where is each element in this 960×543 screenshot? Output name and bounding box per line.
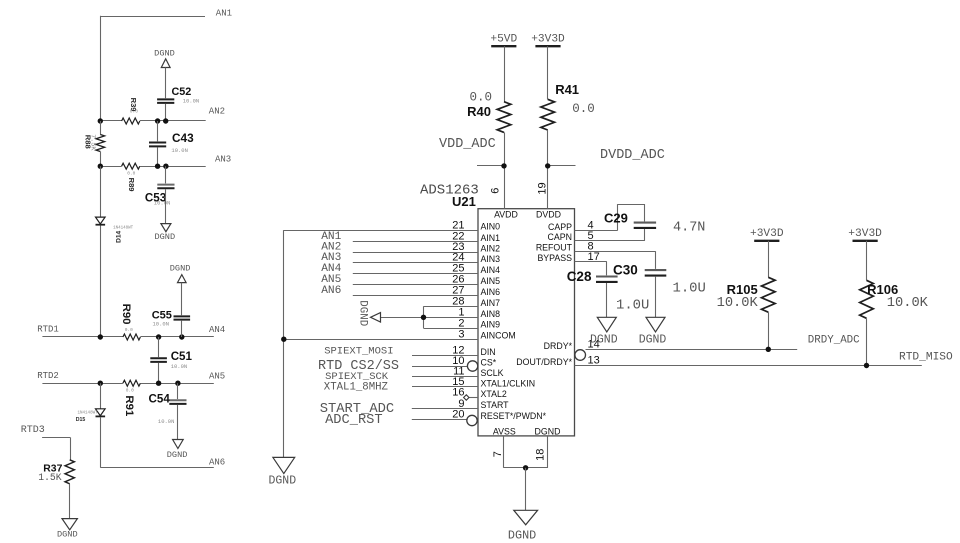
svg-text:10.0N: 10.0N	[153, 320, 170, 327]
svg-text:DGND: DGND	[167, 450, 188, 460]
svg-text:VDD_ADC: VDD_ADC	[439, 137, 496, 152]
capacitor C28	[567, 269, 650, 313]
svg-text:DOUT/DRDY*: DOUT/DRDY*	[516, 357, 572, 367]
capacitor C43	[149, 131, 194, 154]
wire R105 to DRDY	[766, 312, 771, 352]
svg-text:DGND: DGND	[508, 529, 536, 543]
wire C51 to RTD2	[158, 363, 160, 383]
pin 1 AIN8	[424, 307, 501, 319]
power +5VD	[490, 34, 517, 47]
pin 14 DRDY* labels	[544, 339, 600, 351]
wire DGND to C55	[181, 283, 183, 316]
pin 20 RESET*/PWDN*	[412, 409, 547, 426]
resistor R90	[120, 304, 140, 340]
junction RTD1-rail	[98, 334, 103, 339]
svg-text:REFOUT: REFOUT	[536, 243, 573, 253]
svg-text:C51: C51	[171, 350, 193, 363]
svg-text:AIN1: AIN1	[481, 233, 501, 243]
wire RTD2 left	[42, 383, 123, 385]
pin name AVDD	[494, 210, 518, 220]
pin 6 number	[490, 188, 502, 194]
resistor R105	[717, 277, 775, 312]
junction AN2-rail	[98, 118, 103, 123]
wire RTD_MISO	[575, 365, 922, 367]
svg-text:C43: C43	[172, 131, 194, 145]
svg-text:R89: R89	[127, 178, 136, 192]
pin 18 wire	[534, 436, 547, 468]
node VDD_ADC	[439, 137, 507, 169]
pin 25 AIN4	[353, 263, 500, 275]
svg-text:DGND: DGND	[268, 475, 296, 488]
svg-text:AVDD: AVDD	[494, 210, 518, 220]
pin 27 AIN6	[353, 285, 500, 297]
svg-text:10.0K: 10.0K	[717, 296, 759, 311]
svg-text:18: 18	[534, 449, 546, 461]
wire RTD2 to D15	[100, 383, 102, 409]
svg-text:0.0: 0.0	[126, 388, 134, 394]
svg-text:DGND: DGND	[154, 232, 175, 242]
svg-text:RTD3: RTD3	[21, 425, 45, 436]
wire R40 to pin6	[504, 132, 506, 208]
svg-text:U21: U21	[452, 194, 476, 209]
node RTD1 label	[37, 325, 59, 335]
node DVDD_ADC	[545, 148, 665, 169]
svg-text:START: START	[481, 400, 510, 410]
ground DGND below C54	[167, 440, 188, 461]
svg-text:10.0N: 10.0N	[183, 97, 200, 104]
node AN1 label	[216, 8, 232, 18]
junction AN3-C53	[163, 164, 168, 169]
junction AN2-C43	[155, 118, 160, 123]
wire +3V3D to R105	[768, 241, 770, 277]
svg-text:AINCOM: AINCOM	[481, 331, 516, 341]
svg-text:DGND: DGND	[639, 334, 667, 347]
svg-text:C54: C54	[149, 393, 171, 406]
ground DGND flag for AIN8	[357, 300, 381, 326]
svg-text:AN6: AN6	[321, 285, 341, 297]
ground DGND below C28	[590, 317, 618, 346]
wire AN3 right	[140, 166, 206, 168]
svg-text:10.0N: 10.0N	[171, 147, 188, 154]
resistor R40	[467, 91, 511, 133]
node AN1 stub label	[321, 231, 341, 243]
U21 refdes	[452, 194, 476, 209]
svg-text:19: 19	[536, 182, 548, 194]
svg-text:AN4: AN4	[209, 325, 225, 335]
capacitor C51	[150, 350, 192, 370]
svg-text:C28: C28	[567, 269, 592, 284]
svg-text:ADC_RST: ADC_RST	[325, 413, 383, 428]
svg-text:+3V3D: +3V3D	[750, 228, 784, 240]
wire +5VD to R40	[504, 46, 506, 101]
capacitor C52	[157, 86, 199, 104]
svg-text:DGND: DGND	[57, 530, 78, 540]
diode D14	[96, 217, 134, 243]
svg-text:AIN5: AIN5	[481, 276, 501, 286]
ground DGND above C55	[170, 263, 191, 282]
svg-text:RTD_MISO: RTD_MISO	[899, 351, 953, 363]
U21 part number ADS1263	[420, 183, 479, 199]
resistor R41	[541, 82, 595, 130]
wire +3V3D to R106	[866, 241, 868, 280]
svg-text:DVDD: DVDD	[536, 210, 561, 220]
svg-text:0.0: 0.0	[572, 102, 595, 116]
node DRDY_ADC label	[808, 335, 860, 347]
pin 8 REFOUT labels	[536, 240, 594, 252]
node RTD3 label	[21, 425, 45, 436]
resistor R89	[122, 163, 140, 191]
resistor R91	[123, 380, 140, 417]
wire DRDY_ADC	[586, 349, 798, 351]
svg-text:0.0: 0.0	[469, 91, 492, 105]
svg-text:BYPASS: BYPASS	[537, 253, 572, 263]
pin 28 AIN7	[424, 296, 501, 308]
wire C28 to DGND	[606, 283, 608, 317]
wire AN3 to D14	[100, 166, 102, 217]
diode D15	[76, 409, 105, 423]
node AN5 stub label	[321, 274, 341, 286]
node XTAL1_8MHZ	[324, 381, 389, 393]
svg-text:R40: R40	[467, 104, 491, 119]
pin 5 CAPN labels	[548, 230, 594, 242]
svg-text:R91: R91	[123, 395, 135, 417]
svg-text:SCLK: SCLK	[481, 368, 504, 378]
svg-text:AN2: AN2	[209, 106, 225, 116]
svg-text:0.0: 0.0	[125, 327, 133, 333]
wire C43 to AN3	[157, 148, 159, 167]
wire AN6	[100, 467, 214, 469]
pin 10 CS*	[412, 355, 497, 371]
pin name AVSS	[493, 426, 516, 436]
node ADC_RST	[325, 413, 383, 428]
wire RTD2 to C54	[177, 383, 179, 399]
svg-text:1.0U: 1.0U	[616, 297, 649, 313]
svg-text:XTAL2: XTAL2	[481, 389, 507, 399]
IC U21 ADS1263 body	[478, 209, 575, 436]
wire DGND to C52	[165, 68, 167, 99]
wire rail AN1 to AN2	[100, 16, 102, 121]
svg-text:D15: D15	[76, 417, 86, 423]
svg-text:RESET*/PWDN*: RESET*/PWDN*	[481, 411, 547, 421]
wire RTD1 to C51	[158, 337, 160, 357]
svg-text:SPIEXT_MOSI: SPIEXT_MOSI	[324, 346, 393, 358]
pin 12 DIN	[412, 345, 496, 357]
ground DGND below R37	[57, 519, 78, 540]
wire RTD1 right	[140, 336, 213, 338]
junction RTD1-C51	[156, 334, 161, 339]
wire C30 to DGND	[655, 277, 657, 318]
wire C52 to AN2	[165, 104, 167, 121]
svg-text:21: 21	[452, 219, 464, 231]
capacitor C54	[149, 393, 187, 425]
svg-text:AN5: AN5	[209, 371, 225, 381]
capacitor C55	[152, 309, 190, 327]
svg-text:DGND: DGND	[357, 300, 369, 326]
svg-text:10.0N: 10.0N	[171, 363, 188, 370]
svg-text:RTD2: RTD2	[37, 371, 59, 381]
svg-text:4.7N: 4.7N	[673, 220, 705, 235]
power +3V3D left	[531, 34, 565, 47]
svg-text:R106: R106	[867, 282, 898, 297]
svg-text:+3V3D: +3V3D	[848, 228, 882, 240]
svg-text:R90: R90	[120, 304, 132, 325]
node AN4 label	[209, 325, 225, 335]
wire RTD2 right	[140, 383, 213, 385]
svg-text:DVDD_ADC: DVDD_ADC	[600, 148, 665, 163]
node AN6 stub label	[321, 285, 341, 297]
svg-text:AIN9: AIN9	[481, 320, 501, 330]
node SPIEXT_SCK	[325, 371, 389, 383]
wire RTD1 left	[42, 336, 123, 338]
pin 3 AINCOM	[284, 328, 516, 340]
svg-text:AVSS: AVSS	[493, 426, 516, 436]
wire AIN0 rail	[281, 230, 286, 457]
svg-text:D14: D14	[116, 230, 123, 242]
node AN3 stub label	[321, 252, 341, 264]
svg-text:7.5K: 7.5K	[89, 134, 97, 151]
ground DGND below C53	[154, 224, 175, 243]
pin 14 bubble	[575, 350, 586, 361]
node AN4 stub label	[321, 263, 341, 275]
svg-text:20: 20	[452, 409, 464, 421]
svg-text:10.0K: 10.0K	[887, 296, 929, 311]
ground DGND below U21	[508, 510, 538, 542]
svg-text:DRDY_ADC: DRDY_ADC	[808, 335, 860, 347]
pin 17 BYPASS labels	[537, 251, 599, 263]
pin 16 XTAL2	[452, 387, 507, 401]
wire D15 to AN6	[100, 417, 102, 467]
power +3V3D R105	[750, 228, 784, 241]
junction AN3-C43	[155, 164, 160, 169]
svg-text:CS*: CS*	[481, 358, 497, 368]
node RTD_MISO label	[899, 351, 953, 363]
svg-text:DGND: DGND	[590, 334, 618, 347]
node AN6 label	[209, 457, 225, 467]
wire pin4 to C29	[575, 204, 645, 230]
wire C53 to DGND	[165, 189, 167, 223]
wire AN1 net stub	[100, 16, 205, 18]
svg-text:XTAL1/CLKIN: XTAL1/CLKIN	[481, 378, 536, 388]
ground DGND above C52	[154, 48, 175, 67]
pin 4 CAPP labels	[548, 220, 594, 232]
svg-text:DGND: DGND	[535, 426, 561, 436]
node RTD2 label	[37, 371, 59, 381]
wire AVSS-DGND join	[504, 465, 548, 510]
wire AN2 left	[100, 120, 121, 122]
svg-text:AIN7: AIN7	[481, 298, 501, 308]
pin 15 XTAL1/CLKIN	[412, 376, 535, 388]
wire AN3 to C53	[165, 166, 167, 183]
svg-text:10.0N: 10.0N	[158, 418, 175, 425]
wire AN3 left	[100, 166, 121, 168]
ground DGND below C30	[639, 317, 667, 346]
node AN5 label	[209, 371, 225, 381]
pin 22 AIN1	[353, 231, 500, 243]
svg-text:XTAL1_8MHZ: XTAL1_8MHZ	[324, 381, 389, 393]
svg-text:AN1: AN1	[216, 8, 232, 18]
junction RTD2-C51	[156, 381, 161, 386]
svg-text:DIN: DIN	[481, 347, 496, 357]
pin 9 START	[412, 398, 509, 410]
svg-text:DGND: DGND	[154, 48, 175, 58]
svg-text:1N4148WT: 1N4148WT	[78, 411, 99, 415]
node SPIEXT_MOSI	[324, 346, 393, 358]
pin name DVDD	[536, 210, 561, 220]
svg-text:1.5K: 1.5K	[38, 472, 61, 483]
wire pin17 to C28	[575, 262, 607, 276]
svg-text:C30: C30	[613, 263, 638, 278]
svg-text:6: 6	[490, 188, 502, 194]
svg-text:AIN3: AIN3	[481, 254, 501, 264]
resistor R39	[122, 98, 140, 124]
wire R41 to pin19	[547, 130, 549, 209]
resistor R106	[860, 280, 929, 318]
wire AIN7/8/9 tie bracket	[381, 306, 427, 328]
svg-text:DGND: DGND	[170, 263, 191, 273]
wire +3V3D to R41	[547, 46, 549, 99]
svg-text:0.0: 0.0	[130, 108, 138, 114]
svg-text:AIN6: AIN6	[481, 287, 501, 297]
junction RTD1-C55	[179, 334, 184, 339]
svg-text:13: 13	[588, 355, 600, 367]
svg-text:1N4148WT: 1N4148WT	[113, 226, 134, 230]
pin 24 AIN3	[353, 252, 500, 264]
junction RTD2-rail	[98, 381, 103, 386]
pin 19 number	[536, 182, 548, 194]
wire pin8 to C30	[575, 251, 656, 269]
svg-text:RTD1: RTD1	[37, 325, 59, 335]
pin 26 AIN5	[353, 274, 500, 286]
node AN2 label	[209, 106, 225, 116]
svg-text:0.0: 0.0	[127, 171, 135, 177]
junction RTD2-C54	[175, 381, 180, 386]
svg-text:R41: R41	[555, 82, 579, 97]
pin name DGND	[535, 426, 561, 436]
node RTD CS2/SS	[318, 359, 399, 374]
svg-text:DRDY*: DRDY*	[544, 341, 573, 351]
svg-text:7: 7	[492, 451, 504, 457]
node AN2 stub label	[321, 242, 341, 254]
pin 11 SCLK	[412, 366, 504, 378]
wire RTD3	[42, 437, 70, 460]
junction AN3-rail	[98, 164, 103, 169]
pin 21 AIN0	[284, 219, 500, 231]
svg-text:C29: C29	[604, 210, 628, 225]
power +3V3D R106	[848, 228, 882, 241]
resistor R88	[83, 121, 104, 166]
node START_ADC	[320, 402, 395, 417]
svg-text:AIN4: AIN4	[481, 265, 501, 275]
resistor R37	[38, 460, 74, 484]
svg-text:CAPN: CAPN	[548, 232, 572, 242]
svg-text:10.0N: 10.0N	[154, 200, 171, 207]
svg-text:+5VD: +5VD	[490, 34, 517, 46]
wire R37 to DGND	[69, 484, 71, 519]
wire C55 to RTD1	[181, 321, 183, 337]
pin 13 DOUT/DRDY* labels	[516, 355, 599, 367]
wire AN2 right	[140, 120, 206, 122]
svg-text:AIN0: AIN0	[481, 222, 501, 232]
svg-text:+3V3D: +3V3D	[531, 34, 565, 46]
capacitor C53	[145, 185, 175, 207]
node AN3 label	[215, 155, 231, 165]
svg-text:1.0U: 1.0U	[673, 281, 706, 297]
wire C29 to pin5	[575, 229, 645, 241]
capacitor C30	[613, 263, 706, 297]
svg-text:AN3: AN3	[215, 155, 231, 165]
capacitor C29	[604, 210, 705, 235]
pin 2 AIN9	[424, 317, 501, 329]
wire AN2 to C43	[157, 121, 159, 141]
wire D14 to RTD1	[100, 226, 102, 338]
svg-text:CAPP: CAPP	[548, 222, 572, 232]
pin 23 AIN2	[353, 241, 500, 253]
svg-text:3: 3	[458, 328, 464, 340]
svg-text:R105: R105	[727, 282, 758, 297]
junction AN2-C52	[163, 118, 168, 123]
svg-text:AIN8: AIN8	[481, 309, 501, 319]
svg-text:AN6: AN6	[209, 457, 225, 467]
ground DGND big left	[268, 457, 296, 487]
pin 7 wire	[492, 436, 504, 468]
wire R106 to RTD_MISO	[864, 318, 869, 368]
svg-text:AIN2: AIN2	[481, 244, 501, 254]
wire C54 to DGND	[177, 405, 179, 440]
